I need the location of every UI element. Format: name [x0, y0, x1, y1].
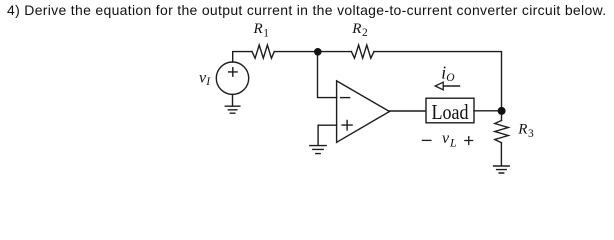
- svg-text:3: 3: [528, 128, 534, 140]
- svg-text:2: 2: [362, 27, 368, 39]
- svg-text:1: 1: [263, 28, 269, 40]
- svg-text:O: O: [446, 72, 455, 84]
- svg-text:L: L: [449, 136, 457, 150]
- svg-text:R: R: [253, 21, 263, 37]
- svg-text:R: R: [351, 21, 361, 37]
- svg-text:4) Derive the equation for the: 4) Derive the equation for the output cu…: [7, 2, 606, 18]
- svg-text:R: R: [517, 122, 527, 138]
- svg-text:v: v: [442, 130, 450, 147]
- svg-text:Load: Load: [432, 100, 469, 124]
